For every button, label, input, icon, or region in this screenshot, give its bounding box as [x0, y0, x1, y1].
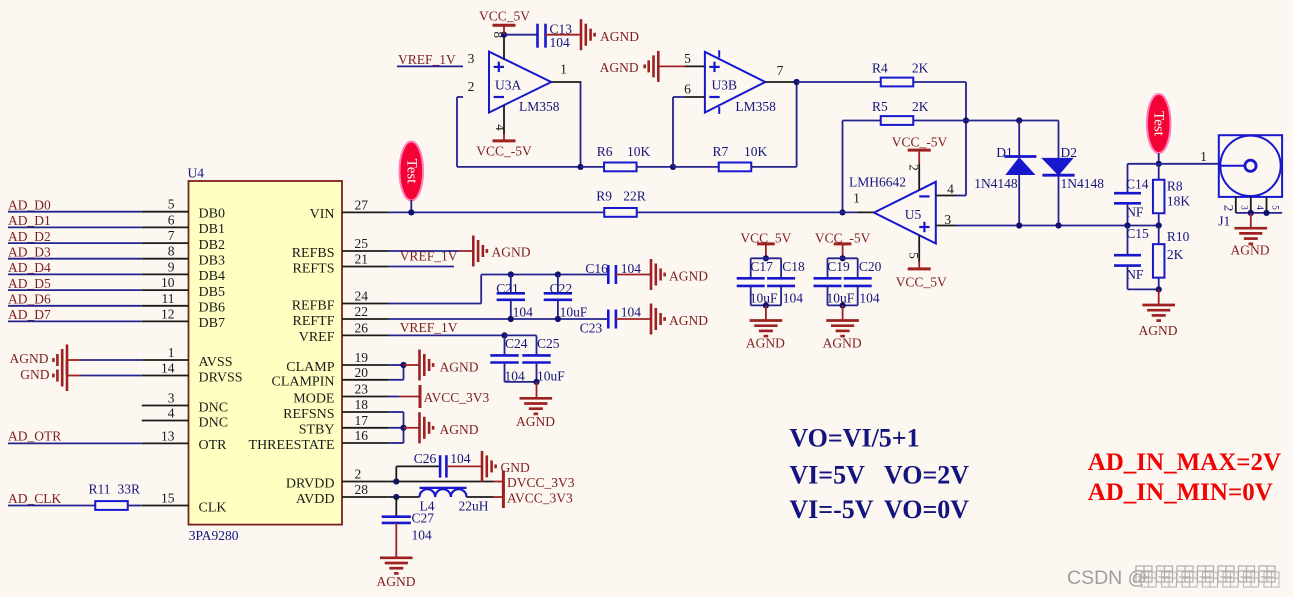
- capacitor C13 104: [536, 24, 539, 48]
- svg-text:1: 1: [168, 345, 175, 360]
- wire R7 to U3B output: [751, 166, 797, 168]
- svg-text:C15: C15: [1126, 226, 1149, 241]
- wire pin 25 REFBS to AGND: [389, 250, 459, 252]
- svg-text:AD_IN_MIN=0V: AD_IN_MIN=0V: [1088, 479, 1273, 506]
- wire L4 to AVCC_3V3: [467, 496, 494, 498]
- svg-text:OTR: OTR: [199, 438, 228, 453]
- svg-text:C21: C21: [496, 281, 519, 296]
- svg-text:R6: R6: [597, 144, 613, 159]
- svg-text:23: 23: [355, 382, 369, 397]
- junction D1 bottom: [1016, 222, 1022, 228]
- svg-text:D1: D1: [996, 145, 1013, 160]
- U4 pin 26 VREF: [342, 334, 389, 336]
- resistor R10 2K: [1158, 226, 1160, 245]
- svg-text:R8: R8: [1167, 179, 1183, 194]
- svg-text:VCC_-5V: VCC_-5V: [476, 144, 532, 159]
- U3A pin 4 power stub: [503, 105, 505, 134]
- svg-text:C22: C22: [550, 281, 573, 296]
- junction C17/C18 top: [763, 255, 769, 261]
- junction C24 top: [501, 332, 507, 338]
- svg-text:C20: C20: [859, 259, 882, 274]
- svg-text:AGND: AGND: [377, 574, 416, 589]
- junction C27 branch: [393, 494, 399, 500]
- U3B power pin tick bottom: [718, 107, 720, 114]
- svg-text:AGND: AGND: [669, 313, 708, 328]
- power port VCC_-5V above U5: [918, 150, 920, 163]
- junction C25 bottom: [533, 379, 539, 385]
- svg-text:U3A: U3A: [495, 78, 521, 93]
- U3B pin 7 output stub: [765, 81, 796, 83]
- svg-text:6: 6: [684, 81, 691, 96]
- capacitor C16 104: [607, 265, 610, 284]
- U4 pin 1 AVSS: [142, 359, 189, 361]
- svg-text:VIN: VIN: [310, 207, 335, 222]
- power port AGND below R10: [1158, 289, 1160, 304]
- svg-text:GND: GND: [20, 367, 49, 382]
- svg-text:AD_CLK: AD_CLK: [8, 491, 61, 506]
- svg-text:VI=5V: VI=5V: [789, 461, 865, 490]
- wire AD_D0 to U4: [8, 211, 142, 213]
- test point Test at output: [1147, 94, 1171, 153]
- svg-text:28: 28: [355, 482, 369, 497]
- U4 pin 2 DRVDD: [342, 481, 389, 483]
- svg-text:10K: 10K: [744, 144, 768, 159]
- op-amp U3B LM358 triangle: [705, 52, 765, 113]
- svg-text:C27: C27: [412, 511, 435, 526]
- svg-text:DB6: DB6: [199, 301, 225, 316]
- svg-text:AGND: AGND: [823, 336, 862, 351]
- U5 pin 1 output stub: [857, 211, 874, 213]
- svg-text:3: 3: [944, 212, 951, 227]
- U4 pin 4 DNC: [142, 420, 189, 422]
- svg-text:DNC: DNC: [199, 415, 229, 430]
- power port AGND at pins 19/20: [404, 364, 420, 366]
- junction D1 top: [1016, 117, 1022, 123]
- junction C26 branch: [393, 478, 399, 484]
- capacitor C27 104: [395, 497, 397, 517]
- svg-text:22uH: 22uH: [459, 499, 489, 514]
- svg-text:1: 1: [560, 62, 567, 77]
- op-amp U3A LM358 triangle: [489, 52, 551, 113]
- wire U3A output down to feedback node: [580, 82, 582, 167]
- svg-text:14: 14: [161, 361, 175, 376]
- svg-text:AD_IN_MAX=2V: AD_IN_MAX=2V: [1088, 449, 1281, 476]
- svg-text:AVCC_3V3: AVCC_3V3: [507, 491, 573, 506]
- svg-text:R4: R4: [872, 61, 888, 76]
- svg-text:AD_D3: AD_D3: [8, 245, 51, 260]
- svg-text:C26: C26: [414, 451, 437, 466]
- svg-text:11: 11: [162, 291, 175, 306]
- U4 pin 23 MODE: [342, 396, 389, 398]
- svg-text:R5: R5: [872, 99, 888, 114]
- wire C15 to R10 bottom: [1128, 288, 1159, 290]
- capacitor block bottom edge: [505, 381, 537, 383]
- svg-text:2K: 2K: [912, 99, 929, 114]
- inductor L4 22uH: [420, 487, 467, 489]
- wire VREF_1V to U3A pin 3: [397, 65, 463, 67]
- junction C22 top: [555, 271, 561, 277]
- svg-text:9: 9: [168, 259, 175, 274]
- U4 pin 22 REFTF: [342, 318, 389, 320]
- test point Test on VIN: [400, 142, 424, 201]
- wire C13 to AGND: [546, 34, 582, 36]
- svg-text:DB0: DB0: [199, 207, 225, 222]
- svg-text:AGND: AGND: [600, 29, 639, 44]
- power port AGND below C19/C20: [842, 305, 844, 319]
- diode D1 1N4148: [1018, 121, 1020, 157]
- svg-text:13: 13: [161, 428, 175, 443]
- svg-text:AGND: AGND: [1231, 243, 1270, 258]
- junction D2 bottom: [1055, 222, 1061, 228]
- svg-text:AD_D2: AD_D2: [8, 229, 51, 244]
- wire pin 21 REFTS: [389, 266, 454, 268]
- junction R6/R7/U3B pin 6: [670, 164, 676, 170]
- svg-text:5: 5: [1271, 205, 1281, 210]
- resistor R11 33R: [95, 501, 128, 510]
- power port VCC_5V below U5: [918, 262, 920, 269]
- wire pin 24 REFBF to cap rail: [389, 303, 482, 305]
- capacitor C20 104: [857, 258, 859, 278]
- power port AGND below J1: [1250, 213, 1252, 227]
- svg-text:27: 27: [355, 197, 369, 212]
- wire pin 22 REFTF rail: [389, 318, 609, 320]
- svg-text:5: 5: [168, 197, 175, 212]
- svg-text:AGND: AGND: [669, 269, 708, 284]
- svg-text:1: 1: [1200, 149, 1207, 164]
- svg-text:1N4148: 1N4148: [974, 176, 1018, 191]
- U4 pin 28 AVDD: [342, 496, 389, 498]
- power port DVCC_3V3: [494, 481, 504, 483]
- svg-text:4: 4: [168, 406, 175, 421]
- junction test point VIN: [408, 209, 414, 215]
- wire GND to pin 14: [81, 375, 142, 377]
- svg-text:DB2: DB2: [199, 238, 225, 253]
- svg-text:CLK: CLK: [199, 500, 227, 515]
- svg-text:AGND: AGND: [10, 351, 49, 366]
- wire R4 to node: [913, 81, 966, 83]
- svg-text:3: 3: [468, 51, 475, 66]
- svg-text:R11: R11: [89, 482, 111, 497]
- svg-text:15: 15: [161, 491, 175, 506]
- svg-text:Test: Test: [1151, 111, 1167, 137]
- power port AGND below C27: [395, 523, 397, 557]
- svg-text:C23: C23: [580, 321, 603, 336]
- svg-text:4: 4: [1255, 205, 1265, 210]
- junction at U3A pin 8: [501, 32, 507, 38]
- junction test/output node: [1156, 161, 1162, 167]
- svg-text:U4: U4: [188, 166, 205, 181]
- svg-text:1: 1: [853, 191, 860, 206]
- U4 pin 10 DB5: [142, 289, 189, 291]
- svg-text:22R: 22R: [623, 189, 646, 204]
- U5 pin 4 stub: [936, 195, 956, 197]
- svg-text:REFBS: REFBS: [292, 246, 335, 261]
- wire U3B pin 6 to feedback: [673, 96, 685, 98]
- svg-text:LM358: LM358: [735, 99, 776, 114]
- wire U5 pin 3 rail to R8/C14: [956, 225, 1159, 227]
- svg-text:VCC_5V: VCC_5V: [479, 9, 530, 24]
- U4 pin 17 STBY: [342, 427, 389, 429]
- U3B pin 6 stub: [685, 96, 705, 98]
- wire AD_CLK to R11: [8, 505, 96, 507]
- U4 pin 25 REFBS: [342, 250, 389, 252]
- U4 pin 14 DRVSS: [142, 375, 189, 377]
- power port AGND right of C16: [650, 259, 653, 290]
- power port VCC_-5V below U3A: [503, 134, 505, 141]
- svg-text:U3B: U3B: [712, 78, 738, 93]
- svg-text:C14: C14: [1126, 177, 1149, 192]
- wire AD_D7 to U4: [8, 320, 142, 322]
- U5 pin 5 power stub: [918, 235, 920, 261]
- svg-text:GND: GND: [501, 460, 530, 475]
- power port GND right of C26: [481, 451, 484, 482]
- svg-text:AD_D6: AD_D6: [8, 292, 51, 307]
- svg-text:AD_OTR: AD_OTR: [8, 429, 61, 444]
- svg-text:104: 104: [859, 291, 880, 306]
- U4 pin 24 REFBF: [342, 303, 389, 305]
- resistor R7 10K: [673, 166, 719, 168]
- svg-text:AGND: AGND: [516, 414, 555, 429]
- svg-text:24: 24: [355, 289, 369, 304]
- svg-text:AGND: AGND: [1139, 323, 1178, 338]
- wire output node to J1: [1128, 163, 1219, 165]
- svg-text:10uF: 10uF: [537, 369, 565, 384]
- svg-text:7: 7: [168, 228, 175, 243]
- U4 pin 11 DB6: [142, 305, 189, 307]
- wire diode top rail: [966, 120, 1059, 122]
- U4 pin 5 DB0: [142, 211, 189, 213]
- svg-text:104: 104: [513, 305, 534, 320]
- U4 pin 21 REFTS: [342, 266, 389, 268]
- svg-text:VI=-5V: VI=-5V: [789, 495, 873, 524]
- junction pin 19: [400, 362, 406, 368]
- capacitor C21 104: [510, 275, 512, 294]
- svg-text:10: 10: [161, 275, 175, 290]
- svg-text:19: 19: [355, 350, 369, 365]
- svg-text:20: 20: [355, 365, 369, 380]
- svg-text:DNC: DNC: [199, 400, 229, 415]
- svg-text:AGND: AGND: [492, 245, 531, 260]
- power port AGND below C24/C25: [536, 382, 538, 397]
- power port AGND below C17/C18: [765, 305, 767, 319]
- svg-text:C19: C19: [827, 259, 850, 274]
- svg-text:U5: U5: [905, 207, 922, 222]
- junction pin 17: [400, 425, 406, 431]
- wire pins 18/17/16 tie: [389, 411, 404, 413]
- svg-text:AVSS: AVSS: [199, 355, 233, 370]
- svg-text:4: 4: [947, 182, 954, 197]
- svg-text:LMH6642: LMH6642: [849, 174, 906, 189]
- svg-text:C25: C25: [537, 336, 560, 351]
- svg-text:VREF_1V: VREF_1V: [400, 320, 458, 335]
- svg-text:33R: 33R: [118, 482, 141, 497]
- svg-text:AVDD: AVDD: [296, 492, 335, 507]
- svg-text:R7: R7: [713, 144, 729, 159]
- svg-text:21: 21: [355, 252, 369, 267]
- svg-text:C16: C16: [585, 261, 608, 276]
- svg-text:2K: 2K: [912, 61, 929, 76]
- wire C26 branch: [395, 466, 397, 481]
- svg-text:3: 3: [1240, 205, 1250, 210]
- wire down to C14: [1127, 164, 1129, 193]
- svg-text:VCC_-5V: VCC_-5V: [892, 135, 948, 150]
- capacitor C26 104: [439, 455, 442, 477]
- capacitor block C24/C25 top edge: [505, 334, 537, 336]
- U3A feedback wire pin 2 loop: [457, 96, 463, 98]
- svg-text:D2: D2: [1061, 145, 1078, 160]
- U3B power pin tick top: [718, 50, 720, 57]
- capacitor C18 104: [780, 258, 782, 278]
- svg-text:8: 8: [168, 244, 175, 259]
- svg-text:CLAMP: CLAMP: [286, 360, 334, 375]
- svg-text:VO=VI/5+1: VO=VI/5+1: [789, 424, 919, 453]
- wire R5 feedback down to U5 output: [842, 121, 844, 213]
- wire R11 to U4 pin 15: [128, 505, 142, 507]
- U4 pin 7 DB2: [142, 242, 189, 244]
- svg-text:5: 5: [907, 252, 922, 259]
- wire U3B output to R4: [797, 81, 881, 83]
- svg-text:6: 6: [168, 212, 175, 227]
- svg-text:DRVSS: DRVSS: [199, 370, 243, 385]
- U3B pin 5 stub: [685, 65, 705, 67]
- svg-text:AGND: AGND: [746, 336, 785, 351]
- resistor R5 2K: [843, 120, 881, 122]
- op-amp U5 LMH6642 triangle: [874, 182, 936, 244]
- svg-text:AVCC_3V3: AVCC_3V3: [424, 390, 490, 405]
- resistor R9 22R: [604, 208, 637, 217]
- svg-text:STBY: STBY: [299, 423, 335, 438]
- IC U4 3PA9280 body: [189, 181, 343, 525]
- U4 pin 8 DB3: [142, 258, 189, 260]
- svg-text:5: 5: [684, 51, 691, 66]
- svg-text:C18: C18: [782, 259, 805, 274]
- capacitor C19 10uF: [828, 257, 858, 259]
- diode D2 1N4148: [1058, 121, 1060, 159]
- svg-text:104: 104: [621, 261, 642, 276]
- svg-text:1N4148: 1N4148: [1061, 176, 1105, 191]
- resistor R6 10K: [581, 166, 605, 168]
- svg-text:AGND: AGND: [440, 360, 479, 375]
- resistor R8 18K: [1158, 164, 1160, 180]
- svg-text:3: 3: [168, 391, 175, 406]
- junction R8 bottom rail: [1156, 222, 1162, 228]
- junction J1 pin: [1248, 210, 1254, 216]
- wire pin8 to C13: [504, 34, 538, 36]
- wire pins 19/20 CLAMP tie: [389, 364, 404, 366]
- svg-text:C17: C17: [750, 259, 773, 274]
- junction U3A output/R6: [577, 164, 583, 170]
- svg-text:2: 2: [355, 467, 362, 482]
- capacitor C25 10uF: [536, 335, 538, 355]
- svg-text:AD_D1: AD_D1: [8, 213, 51, 228]
- U4 pin 12 DB7: [142, 320, 189, 322]
- capacitor C17 10uF: [751, 257, 781, 259]
- junction C19/C20 top: [840, 255, 846, 261]
- U4 pin 20 CLAMPIN: [342, 379, 389, 381]
- svg-text:R9: R9: [596, 189, 612, 204]
- power port AGND right of C13: [580, 19, 583, 50]
- junction R4/R5/diodes: [963, 117, 969, 123]
- wire AD_OTR to U4 pin 13: [8, 442, 142, 444]
- svg-text:18: 18: [355, 397, 369, 412]
- capacitor C23 104: [607, 310, 610, 329]
- U4 pin 16 THREESTATE: [342, 442, 389, 444]
- U5 pin 2 power stub: [918, 164, 920, 191]
- wire R9 to U5 output: [637, 211, 857, 213]
- power port AGND at pins 16/17/18: [404, 427, 420, 429]
- svg-text:104: 104: [450, 451, 471, 466]
- svg-text:LM358: LM358: [519, 99, 560, 114]
- svg-text:AGND: AGND: [440, 422, 479, 437]
- svg-text:10uF: 10uF: [560, 305, 588, 320]
- power port AVCC_3V3 at pin 23: [389, 396, 399, 398]
- svg-text:AD_D7: AD_D7: [8, 307, 51, 322]
- svg-text:REFBF: REFBF: [292, 298, 335, 313]
- svg-text:104: 104: [550, 35, 571, 50]
- U4 pin 27 VIN: [342, 211, 389, 213]
- svg-text:AD_D4: AD_D4: [8, 260, 51, 275]
- wire C23 to AGND: [616, 318, 651, 320]
- connector J1 body: [1219, 135, 1282, 197]
- junction C22 bottom: [555, 316, 561, 322]
- svg-text:DB1: DB1: [199, 222, 225, 237]
- svg-text:104: 104: [783, 291, 804, 306]
- svg-text:CLAMPIN: CLAMPIN: [271, 375, 334, 390]
- svg-text:THREESTATE: THREESTATE: [249, 438, 335, 453]
- svg-text:J1: J1: [1218, 214, 1230, 229]
- wire node down to U5 pin 4: [965, 82, 967, 196]
- U4 pin 6 DB1: [142, 226, 189, 228]
- svg-text:104: 104: [412, 528, 433, 543]
- junction C17/C18 bottom: [763, 302, 769, 308]
- wire C26 to GND: [446, 465, 482, 467]
- U4 pin 9 DB4: [142, 273, 189, 275]
- svg-text:VO=0V: VO=0V: [884, 495, 969, 524]
- wire AD_D6 to U4: [8, 305, 142, 307]
- capacitor C14 NF: [1114, 192, 1141, 195]
- svg-text:C24: C24: [505, 336, 528, 351]
- svg-text:VREF: VREF: [299, 330, 335, 345]
- svg-text:2: 2: [907, 164, 922, 171]
- svg-text:DB3: DB3: [199, 254, 225, 269]
- capacitor C24 104: [504, 335, 506, 355]
- svg-text:VREF_1V: VREF_1V: [400, 249, 458, 264]
- U3A pin 1 output stub: [551, 81, 581, 83]
- svg-text:NF: NF: [1126, 205, 1144, 220]
- svg-text:AGND: AGND: [600, 60, 639, 75]
- wire pin 28 AVDD to L4: [389, 496, 420, 498]
- svg-text:DRVDD: DRVDD: [286, 476, 335, 491]
- svg-text:2: 2: [1222, 205, 1237, 212]
- wire R6 to R7 node: [637, 166, 674, 168]
- junction C19/C20 bottom: [840, 302, 846, 308]
- svg-text:2K: 2K: [1167, 247, 1184, 262]
- svg-text:AD_D0: AD_D0: [8, 198, 51, 213]
- svg-text:CSDN @: CSDN @: [1067, 567, 1147, 589]
- svg-text:18K: 18K: [1167, 194, 1191, 209]
- wire U5 pin 4 to node: [956, 195, 966, 197]
- svg-text:10K: 10K: [627, 144, 651, 159]
- svg-text:DB5: DB5: [199, 285, 225, 300]
- wire R5 to node: [913, 120, 966, 122]
- power port AGND right of C23: [650, 304, 653, 335]
- svg-text:12: 12: [161, 306, 175, 321]
- wire U4 pin 27 VIN run: [389, 211, 605, 213]
- J1 shield pins: [1235, 197, 1237, 213]
- junction J1 pin right: [1263, 210, 1269, 216]
- svg-text:VO=2V: VO=2V: [884, 461, 969, 490]
- wire AD_D5 to U4: [8, 289, 142, 291]
